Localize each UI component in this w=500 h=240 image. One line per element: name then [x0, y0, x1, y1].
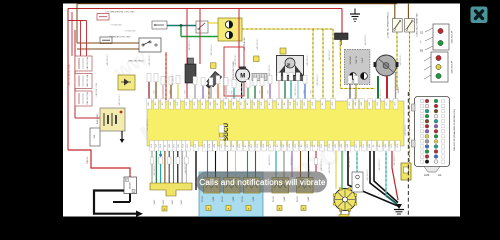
svg-text:GIAC: GIAC — [162, 199, 165, 204]
svg-text:DAY DIEN 0.5: DAY DIEN 0.5 — [268, 64, 271, 75]
svg-text:A8: A8 — [154, 103, 157, 105]
svg-text:DAY DIEN 0.5: DAY DIEN 0.5 — [234, 54, 237, 65]
svg-text:DAU NOI 6P (PHAN BEN DUNG/DK L: DAU NOI 6P (PHAN BEN DUNG/DK LON) — [453, 109, 456, 151]
svg-text:CAU CHI 10A: CAU CHI 10A — [86, 74, 89, 87]
svg-text:B5: B5 — [373, 145, 375, 147]
svg-text:B29: B29 — [151, 144, 153, 147]
svg-text:B1: B1 — [165, 145, 167, 147]
svg-text:DAU NOI 3P: DAU NOI 3P — [451, 30, 454, 43]
svg-text:QUAT: QUAT — [252, 196, 255, 202]
svg-text:CAU CHI 7,5A (DEN BAO LP): CAU CHI 7,5A (DEN BAO LP) — [105, 10, 134, 13]
svg-text:A2: A2 — [161, 103, 164, 105]
svg-text:G1: G1 — [420, 31, 424, 35]
svg-text:B47: B47 — [283, 144, 285, 147]
svg-text:N: N — [286, 63, 291, 66]
svg-text:A16: A16 — [185, 102, 188, 105]
svg-text:B6: B6 — [314, 145, 316, 147]
svg-text:B46: B46 — [369, 144, 371, 147]
svg-text:DAY DIEN 0.5: DAY DIEN 0.5 — [256, 38, 259, 49]
svg-text:B18: B18 — [160, 144, 162, 147]
svg-text:B41: B41 — [335, 144, 337, 147]
svg-text:CAU CHI 10A: CAU CHI 10A — [86, 57, 89, 70]
svg-text:A35: A35 — [240, 102, 243, 105]
svg-text:A48: A48 — [209, 102, 212, 105]
svg-text:B8: B8 — [301, 145, 303, 147]
svg-text:RO LE: RO LE — [273, 195, 275, 201]
svg-text:CONG TAC PHANH TRUOC: CONG TAC PHANH TRUOC — [387, 11, 390, 38]
svg-text:DAY DO: DAY DO — [86, 156, 89, 164]
svg-text:AC/DC: AC/DC — [128, 181, 131, 188]
svg-text:DAY DIEN 0.5: DAY DIEN 0.5 — [404, 124, 407, 135]
svg-text:DEN BAO: DEN BAO — [349, 55, 352, 64]
svg-text:B36: B36 — [321, 144, 323, 147]
svg-text:GIAC: GIAC — [171, 199, 174, 204]
svg-text:B11: B11 — [174, 144, 176, 147]
svg-text:QUAT: QUAT — [212, 196, 215, 202]
svg-text:B24: B24 — [347, 144, 349, 147]
svg-text:A6: A6 — [246, 103, 249, 105]
svg-text:RO LE: RO LE — [222, 195, 224, 201]
svg-text:BINH DIEN: BINH DIEN — [97, 113, 99, 124]
svg-text:DAY DIEN 0.5: DAY DIEN 0.5 — [110, 23, 121, 26]
svg-text:B30: B30 — [289, 144, 291, 147]
svg-text:DAY DIEN 0.5: DAY DIEN 0.5 — [399, 54, 402, 65]
svg-text:B28: B28 — [183, 144, 185, 147]
svg-text:CAU CHI 15A (MAIN): CAU CHI 15A (MAIN) — [109, 35, 130, 38]
svg-text:DAY DIEN 0.5: DAY DIEN 0.5 — [379, 89, 382, 100]
svg-text:DAU NOI 4P: DAU NOI 4P — [451, 60, 454, 73]
svg-text:DAY DIEN 0.5: DAY DIEN 0.5 — [354, 89, 357, 100]
svg-text:CAU CHI 2 10A: CAU CHI 2 10A — [95, 83, 98, 97]
svg-text:DAY DIEN 0.5: DAY DIEN 0.5 — [168, 164, 171, 175]
svg-text:B6: B6 — [233, 145, 235, 147]
svg-text:B22: B22 — [187, 144, 189, 147]
svg-text:B49: B49 — [169, 144, 171, 147]
svg-text:B19: B19 — [329, 144, 331, 147]
svg-text:DAY DIEN 0.5: DAY DIEN 0.5 — [290, 154, 293, 165]
svg-text:QUAT: QUAT — [307, 196, 310, 202]
svg-text:A48: A48 — [169, 102, 172, 105]
svg-text:B23: B23 — [251, 144, 253, 147]
svg-text:A6: A6 — [283, 103, 286, 105]
svg-text:CAU CHI 10A: CAU CHI 10A — [86, 92, 89, 105]
svg-text:DAY DIEN 0.5: DAY DIEN 0.5 — [124, 29, 135, 32]
svg-text:RO LE: RO LE — [202, 195, 204, 201]
svg-text:QUAT: QUAT — [283, 196, 286, 202]
svg-text:DAY DIEN 0.5: DAY DIEN 0.5 — [366, 169, 369, 180]
svg-text:DAY DIEN 0.5: DAY DIEN 0.5 — [148, 54, 151, 65]
svg-text:B14: B14 — [209, 144, 211, 147]
svg-text:DAY DIEN 0.5: DAY DIEN 0.5 — [320, 159, 323, 170]
svg-text:A48: A48 — [232, 102, 235, 105]
svg-text:QUAT: QUAT — [232, 196, 235, 202]
svg-text:GIAC: GIAC — [153, 199, 156, 204]
svg-text:B22: B22 — [221, 144, 223, 147]
svg-text:B7: B7 — [245, 145, 247, 147]
svg-text:A7: A7 — [216, 103, 219, 105]
svg-text:CONG TAC MAY: CONG TAC MAY — [128, 59, 144, 62]
svg-text:B3: B3 — [379, 145, 381, 147]
svg-text:RO LE: RO LE — [297, 195, 299, 201]
svg-text:A3: A3 — [268, 103, 271, 105]
svg-text:M: M — [240, 74, 245, 80]
svg-text:A42: A42 — [360, 102, 363, 105]
svg-text:A39: A39 — [311, 102, 314, 105]
svg-text:RO LE: RO LE — [242, 195, 244, 201]
svg-text:LAMP: LAMP — [361, 57, 364, 63]
svg-text:B18: B18 — [195, 144, 197, 147]
svg-text:B13: B13 — [363, 144, 365, 147]
svg-text:DAY DIEN 0.5: DAY DIEN 0.5 — [328, 162, 331, 173]
svg-text:B38: B38 — [156, 144, 158, 147]
svg-text:A44: A44 — [224, 102, 227, 105]
svg-text:A45: A45 — [368, 102, 371, 105]
svg-text:B35: B35 — [295, 144, 297, 147]
svg-text:A36: A36 — [331, 102, 334, 105]
svg-text:DEN PHA LED: DEN PHA LED — [243, 37, 246, 51]
svg-text:A9: A9 — [201, 103, 204, 105]
svg-text:B39: B39 — [263, 144, 265, 147]
svg-text:B15: B15 — [391, 144, 393, 147]
svg-text:A15: A15 — [394, 102, 397, 105]
svg-text:A13: A13 — [348, 102, 351, 105]
svg-text:THIET BI: THIET BI — [356, 56, 358, 64]
svg-text:DAY DIEN 0.5: DAY DIEN 0.5 — [171, 74, 174, 85]
svg-text:DAY DIEN 0.5: DAY DIEN 0.5 — [184, 162, 187, 173]
svg-text:DAY DIEN 0.5: DAY DIEN 0.5 — [316, 74, 319, 85]
svg-text:B19: B19 — [397, 144, 399, 147]
svg-text:A2: A2 — [321, 103, 324, 105]
svg-text:DAY DIEN 0.5: DAY DIEN 0.5 — [146, 119, 149, 130]
svg-text:A28: A28 — [260, 102, 263, 105]
svg-text:DAY DIEN 0.5: DAY DIEN 0.5 — [106, 54, 109, 65]
svg-text:B45: B45 — [178, 144, 180, 147]
svg-text:B2: B2 — [420, 49, 424, 53]
svg-text:B49: B49 — [214, 144, 216, 147]
svg-text:B17: B17 — [270, 144, 272, 147]
svg-text:B7: B7 — [227, 145, 229, 147]
svg-text:DAY DIEN 0.5: DAY DIEN 0.5 — [348, 156, 351, 167]
svg-text:BUGI: BUGI — [398, 87, 400, 92]
svg-text:B43: B43 — [385, 144, 387, 147]
svg-text:A14: A14 — [289, 102, 292, 105]
svg-text:DAY DIEN 0.5: DAY DIEN 0.5 — [306, 54, 309, 65]
svg-text:DAY DIEN 0.5: DAY DIEN 0.5 — [210, 44, 213, 55]
svg-text:B10: B10 — [204, 144, 206, 147]
svg-text:B23: B23 — [257, 144, 259, 147]
svg-text:A15: A15 — [193, 102, 196, 105]
svg-text:DAY DIEN 0.5: DAY DIEN 0.5 — [268, 154, 271, 165]
svg-text:Calls and notifications will v: Calls and notifications will vibrate — [199, 178, 326, 187]
svg-text:B3: B3 — [277, 145, 279, 147]
svg-text:A38: A38 — [253, 102, 256, 105]
svg-text:DAY DIEN 0.5: DAY DIEN 0.5 — [188, 39, 191, 50]
svg-text:B37: B37 — [356, 144, 358, 147]
svg-text:GIAC: GIAC — [180, 199, 183, 204]
svg-text:B25: B25 — [307, 144, 309, 147]
svg-text:A1: A1 — [438, 173, 442, 177]
svg-text:A18: A18 — [176, 102, 179, 105]
svg-text:DAY DIEN 0.5: DAY DIEN 0.5 — [153, 164, 156, 175]
svg-text:DAY DIEN 0.5: DAY DIEN 0.5 — [393, 154, 396, 165]
svg-text:DAY DIEN 0.5: DAY DIEN 0.5 — [378, 159, 381, 170]
svg-text:B40: B40 — [341, 144, 343, 147]
svg-text:CAU CHI 10A (SAC USB): CAU CHI 10A (SAC USB) — [68, 64, 71, 86]
svg-text:A46: A46 — [354, 102, 357, 105]
svg-text:DAY DIEN 0.5: DAY DIEN 0.5 — [364, 34, 367, 45]
svg-text:A41: A41 — [147, 102, 150, 105]
svg-text:A33: A33 — [303, 102, 306, 105]
svg-text:DAY DIEN 0.5: DAY DIEN 0.5 — [118, 94, 121, 105]
svg-text:CONG TAC PHANH SAU: CONG TAC PHANH SAU — [416, 13, 419, 37]
svg-text:B25: B25 — [239, 144, 241, 147]
svg-text:DAY DIEN 0.5: DAY DIEN 0.5 — [328, 49, 331, 60]
svg-text:A35: A35 — [376, 102, 379, 105]
svg-text:A33: A33 — [424, 173, 430, 177]
svg-text:A15: A15 — [296, 102, 299, 105]
svg-text:DAY DIEN 0.5: DAY DIEN 0.5 — [294, 84, 297, 95]
svg-text:A27: A27 — [385, 102, 388, 105]
svg-text:A2: A2 — [277, 103, 280, 105]
